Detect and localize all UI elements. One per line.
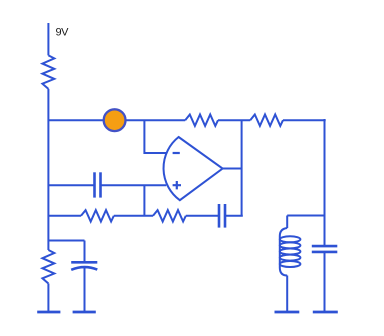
wire: lower row to C2 — [186, 215, 219, 217]
wire: C2 to output vertical — [225, 215, 243, 217]
wire: lower row left — [48, 215, 81, 217]
wire: C3 to ground — [84, 268, 86, 311]
resistor R5 — [153, 210, 186, 221]
wire: right vertical — [324, 119, 326, 246]
wire: vertical joining +row to lower row — [143, 185, 145, 216]
capacitor C3 — [71, 262, 97, 270]
ground (C3) — [73, 311, 96, 314]
wire: non-inverting input row left — [48, 184, 94, 186]
wire: top row node to feedback junction — [126, 119, 186, 121]
wire: left rail — [47, 89, 49, 250]
wire: op-amp output — [223, 168, 242, 170]
wire: non-inverting input row right — [101, 184, 167, 186]
wire: rail to ground — [47, 284, 49, 312]
wire: top row left (rail to node) — [48, 119, 104, 121]
wire: inductor bottom lead — [286, 276, 288, 312]
wire: inductor top lead — [286, 216, 288, 229]
wire: feedback vertical to inverting input — [144, 120, 166, 153]
resistor R3 — [250, 115, 283, 126]
wire: top row between R2 and R3 — [218, 119, 250, 121]
wire: lower row middle — [114, 215, 153, 217]
wire: bottom-left branch to C3 — [48, 241, 84, 263]
node A (orange probe node) — [104, 109, 126, 131]
op-amp U1 — [164, 137, 223, 200]
wire: tank branch — [287, 215, 324, 217]
wire: C4 to ground — [324, 252, 326, 311]
svg-text:9V: 9V — [56, 26, 70, 38]
wire: output vertical — [241, 120, 243, 216]
wire: top row right to corner — [283, 119, 326, 121]
resistor R4 — [81, 210, 114, 221]
ground (C4) — [313, 311, 338, 314]
ground (left rail) — [37, 311, 60, 314]
resistor R6 — [42, 250, 54, 284]
wire: 9V rail top lead — [47, 23, 49, 55]
resistor R2 — [185, 115, 218, 126]
inductor L1 — [280, 228, 301, 276]
resistor R1 — [42, 55, 54, 89]
capacitor C2 — [219, 204, 225, 228]
capacitor C1 — [95, 172, 101, 197]
ground (L1) — [275, 311, 300, 314]
capacitor C4 — [312, 246, 338, 252]
